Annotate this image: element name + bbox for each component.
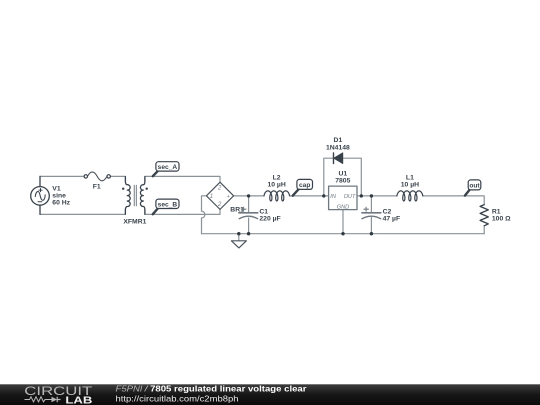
- phase dot primary: [122, 188, 124, 190]
- capacitor C1: [239, 207, 258, 219]
- wire L1 to R1: [423, 196, 484, 205]
- svg-text:2: 2: [217, 201, 222, 208]
- logo resistor-diode glyph: [25, 397, 61, 403]
- junction node at U1 OUT: [360, 194, 363, 197]
- svg-text:220 µF: 220 µF: [259, 215, 280, 222]
- label V1 sine 60 Hz: [52, 186, 70, 207]
- junction node at U1 GND: [341, 232, 344, 235]
- flag sec_A: [153, 162, 179, 177]
- svg-text:D1: D1: [334, 137, 343, 144]
- svg-text:IN: IN: [330, 194, 337, 200]
- junction node at U1 IN: [322, 194, 325, 197]
- svg-text:100 Ω: 100 Ω: [492, 216, 511, 223]
- wire C2 branch upper: [370, 196, 372, 212]
- svg-text:1: 1: [210, 193, 213, 200]
- primary winding: [125, 177, 130, 215]
- label C1 220uF: [259, 208, 280, 222]
- svg-text:OUT: OUT: [344, 194, 356, 200]
- junction node at C2 bottom: [370, 232, 373, 235]
- svg-text:http://circuitlab.com/c2mb8ph: http://circuitlab.com/c2mb8ph: [116, 394, 239, 404]
- svg-text:F5PNl / 7805 regulated linear: F5PNl / 7805 regulated linear voltage cl…: [116, 384, 308, 394]
- wire secondary bottom to bridge bottom vertex: [145, 209, 220, 214]
- label C2 47uF: [383, 208, 401, 222]
- label L1 10uH: [401, 175, 419, 189]
- resistor R1: [480, 205, 488, 226]
- svg-text:F1: F1: [93, 184, 101, 191]
- svg-text:cap: cap: [299, 182, 310, 189]
- inductor L2: [264, 191, 290, 201]
- wire ground stub: [238, 234, 240, 241]
- ground: [231, 241, 246, 248]
- voltage source V1: [31, 176, 50, 214]
- svg-text:60 Hz: 60 Hz: [52, 200, 70, 207]
- junction node at C1 bottom: [247, 232, 250, 235]
- wire C2 branch lower: [370, 218, 372, 234]
- svg-text:1N4148: 1N4148: [326, 144, 350, 151]
- wire R1 bottom lead: [483, 226, 485, 234]
- wire D1 bypass loop: [324, 158, 362, 196]
- svg-text:R1: R1: [492, 209, 501, 216]
- wire C1 branch upper: [248, 196, 250, 212]
- svg-text:2: 2: [217, 184, 222, 191]
- svg-text:47 µF: 47 µF: [383, 215, 401, 222]
- bridge rectifier BR1: [206, 182, 233, 209]
- flag cap: [293, 179, 313, 195]
- svg-text:LAB: LAB: [65, 396, 92, 405]
- svg-text:sec_A: sec_A: [158, 164, 178, 171]
- svg-text:7805: 7805: [335, 178, 350, 185]
- label U1 7805: [335, 170, 350, 184]
- wire bridge right vertex to L2: [234, 195, 264, 197]
- diode D1: [334, 153, 343, 164]
- secondary winding: [140, 177, 144, 215]
- svg-text:XFMR1: XFMR1: [123, 218, 146, 225]
- wire fuse to transformer corner: [110, 176, 125, 181]
- op-amp U1 regulator box: [329, 186, 357, 210]
- junction node at C1 top: [247, 194, 250, 197]
- flag sec_B: [153, 199, 179, 214]
- label D1 1N4148: [326, 137, 350, 151]
- wire U1 OUT to L1: [357, 195, 397, 197]
- wire bridge left vertex down with hop: [202, 196, 207, 234]
- capacitor C2: [362, 207, 381, 219]
- svg-text:10 µH: 10 µH: [401, 182, 419, 189]
- svg-text:GND: GND: [337, 204, 349, 210]
- inductor L1: [397, 191, 423, 201]
- label L2 10uH: [267, 175, 285, 189]
- svg-text:10 µH: 10 µH: [267, 182, 285, 189]
- junction node at C2 top: [370, 194, 373, 197]
- svg-text:U1: U1: [338, 170, 347, 177]
- wire U1 GND lead: [342, 210, 344, 234]
- svg-text:sec_B: sec_B: [158, 201, 178, 208]
- core: [134, 185, 136, 205]
- label R1 100ohm: [492, 209, 511, 223]
- junction node at ground stub: [237, 232, 240, 235]
- fuse F1: [84, 172, 110, 181]
- wire bottom ground rail: [202, 233, 485, 235]
- wire C1 branch lower: [248, 218, 250, 234]
- wire primary bottom rail: [40, 209, 125, 214]
- svg-text:out: out: [469, 183, 480, 190]
- phase dot secondary: [146, 188, 148, 190]
- wire top rail V1 to fuse: [40, 175, 84, 177]
- wire secondary top to bridge: [145, 176, 220, 182]
- transformer XFMR1: [122, 177, 148, 215]
- wire L2 to U1 IN: [290, 195, 329, 197]
- flag out: [465, 180, 481, 196]
